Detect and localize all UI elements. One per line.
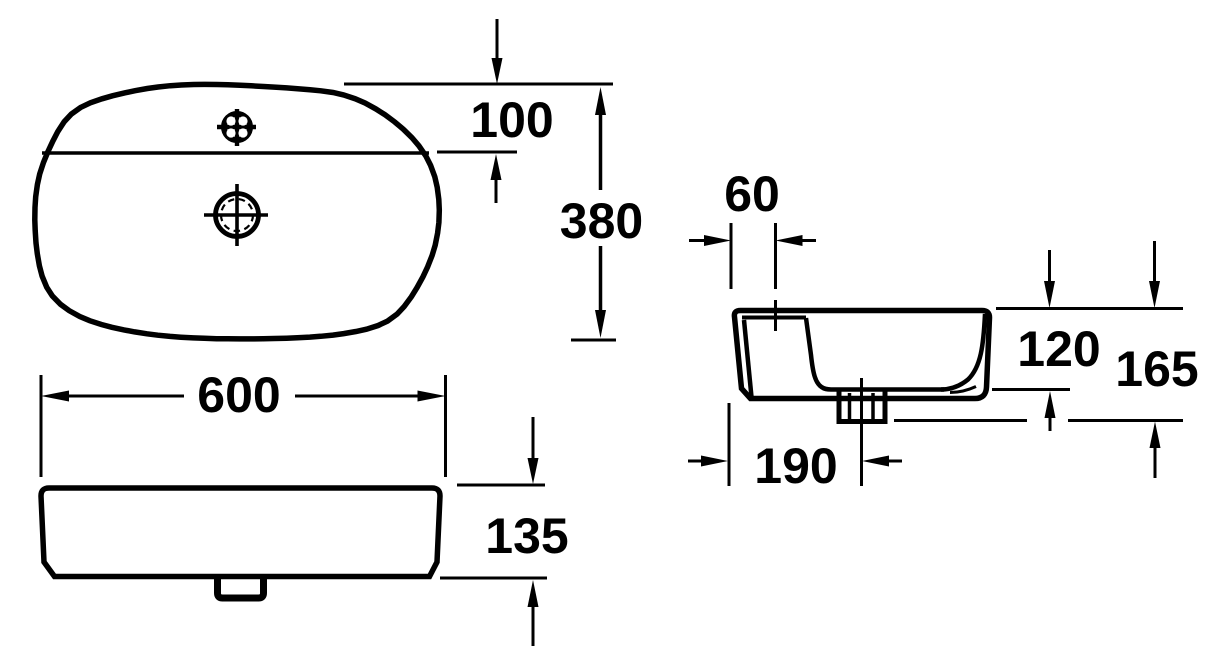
dim 120 up arrow	[1045, 391, 1056, 431]
svg-text:190: 190	[754, 438, 837, 494]
dim 100 up arrow	[491, 154, 502, 203]
svg-text:600: 600	[197, 367, 280, 423]
drain hole symbol	[204, 184, 268, 246]
svg-text:135: 135	[485, 508, 568, 564]
dim 190 extension line	[728, 403, 731, 486]
dim 120 down arrow	[1044, 250, 1055, 308]
extension line top (plan top)	[344, 83, 613, 86]
dim 190 outside arrows	[688, 456, 902, 467]
dim 135 down arrow	[528, 417, 539, 484]
svg-text:120: 120	[1017, 321, 1100, 377]
dim 600 line with arrows	[41, 391, 446, 402]
plan view deck line	[42, 151, 429, 155]
dim 165 bottom tick	[894, 419, 1027, 422]
dim 120 bottom tick	[992, 388, 1070, 391]
tap hole symbol	[217, 109, 256, 146]
dim 135 top tick	[457, 484, 545, 487]
dim 600 extension lines	[40, 375, 43, 477]
dim 135 up arrow	[528, 580, 539, 646]
extension line deck (plan deck line)	[437, 151, 517, 154]
svg-text:100: 100	[470, 92, 553, 148]
dim 380 vertical line with arrows	[571, 87, 616, 340]
side view inner bowl wall and bottom	[806, 318, 944, 390]
side view inner bowl right curve	[941, 314, 985, 390]
side view far rim arc	[950, 387, 976, 393]
svg-text:380: 380	[560, 193, 643, 249]
dim 60 outside arrows	[689, 235, 816, 246]
dim 165 down arrow	[1149, 241, 1160, 308]
front view outline	[41, 488, 440, 577]
side view inner rim line	[742, 316, 806, 320]
drain centre line	[860, 378, 863, 486]
dim 60 extension lines	[730, 223, 733, 289]
side view outline	[734, 311, 989, 399]
side view drain box	[839, 390, 885, 422]
front view fixing tab	[218, 577, 264, 598]
dim 100 down arrow	[492, 19, 503, 84]
dim 135 bottom tick	[440, 577, 547, 580]
tap centre line segment	[774, 300, 777, 331]
side view left wall inner line	[744, 320, 752, 397]
plan view basin outline	[35, 84, 440, 339]
dim 165 up arrow	[1150, 422, 1161, 479]
svg-text:60: 60	[724, 166, 780, 222]
svg-text:165: 165	[1115, 341, 1198, 397]
dim 120/165 top tick	[996, 307, 1183, 310]
